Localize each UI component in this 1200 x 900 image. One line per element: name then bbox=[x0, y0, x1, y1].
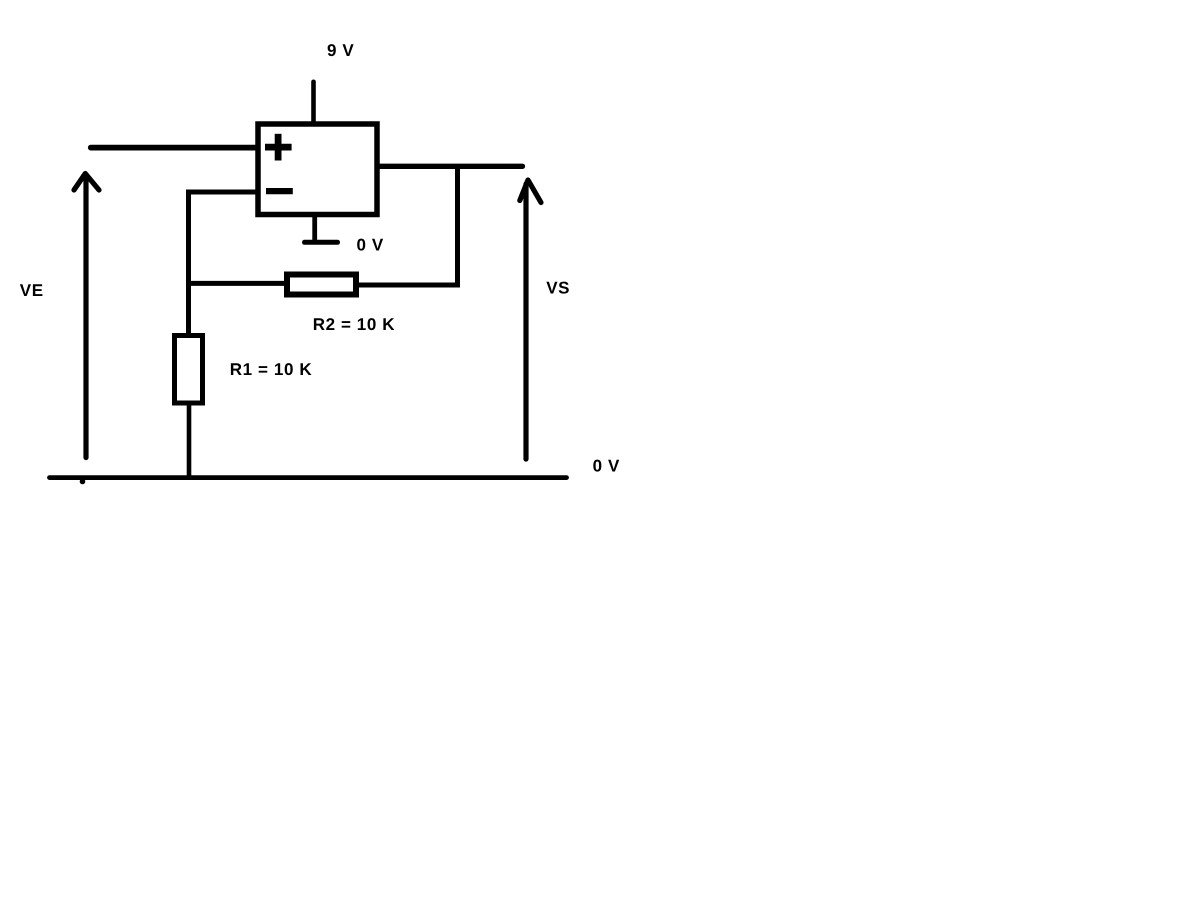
wire inverting input from node A bbox=[189, 192, 258, 334]
arrow VE shaft bbox=[83, 177, 88, 458]
ground symbol bar 0V bbox=[305, 240, 338, 245]
svg-text:R2 = 10 K: R2 = 10 K bbox=[313, 315, 396, 334]
wire R2 left to node A bbox=[189, 281, 286, 286]
junction dot on 0V rail bbox=[80, 479, 86, 485]
wire 0V rail bbox=[50, 475, 567, 480]
wire op-amp output bbox=[378, 164, 523, 169]
svg-text:R1 = 10 K: R1 = 10 K bbox=[230, 360, 313, 379]
arrow VS shaft bbox=[523, 184, 528, 459]
svg-text:9 V: 9 V bbox=[327, 41, 354, 60]
wire non-inverting input VE bbox=[91, 145, 257, 151]
resistor R2 bbox=[287, 275, 356, 295]
svg-text:VE: VE bbox=[20, 281, 44, 300]
arrow VS head bbox=[520, 180, 541, 203]
resistor R1 bbox=[175, 336, 203, 404]
op-amp inverting input - symbol bbox=[266, 188, 293, 194]
op-amp non-inverting input + symbol bbox=[265, 134, 292, 161]
ground symbol wire from op-amp bottom bbox=[312, 216, 317, 241]
arrow VE head bbox=[74, 174, 99, 191]
svg-text:VS: VS bbox=[546, 279, 570, 298]
svg-text:0 V: 0 V bbox=[357, 236, 384, 255]
wire 9V supply to op-amp V+ pin bbox=[311, 82, 316, 124]
wire R1 bottom to 0V rail bbox=[187, 404, 192, 478]
op-amp U1 body bbox=[258, 124, 377, 215]
wire feedback branch from output down to R2 right bbox=[359, 164, 458, 285]
svg-text:0 V: 0 V bbox=[593, 457, 620, 476]
